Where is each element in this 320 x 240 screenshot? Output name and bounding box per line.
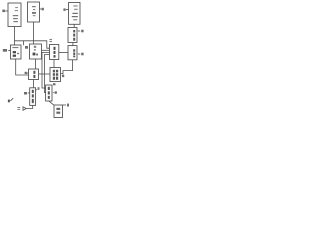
leader C label <box>66 9 68 11</box>
wire A to F vertical <box>14 27 16 46</box>
text U32 interior <box>53 70 58 80</box>
speaker triangle <box>23 107 26 111</box>
wire B to G vertical <box>33 22 35 44</box>
leader 26 <box>78 53 80 55</box>
wire C to D vertical <box>73 24 75 27</box>
wire L to M diagonal <box>49 101 54 105</box>
text U12 interior <box>12 47 18 57</box>
text U34 interior vertical <box>33 71 35 78</box>
ref label right of U6 <box>67 104 69 107</box>
wire E down to J <box>61 60 73 74</box>
wire H left down to L lower <box>45 55 50 93</box>
block U16 (top-middle box) <box>28 2 40 22</box>
ref label 14 <box>25 46 28 49</box>
block U15 (bottom middle box) <box>46 85 52 101</box>
wire H to E horizontal <box>59 52 68 54</box>
text U10 interior <box>13 7 18 22</box>
block U32 (lower-mid right box) <box>50 68 61 82</box>
microphone marks left of speaker <box>17 108 20 110</box>
leader K label <box>28 92 30 94</box>
ref label left of U18 <box>63 8 65 11</box>
wire F down right to I <box>16 59 29 75</box>
block U46 (mid box right of U14) <box>50 45 59 60</box>
block U10 (top-left box) <box>8 3 21 27</box>
ref label 24 <box>81 30 83 33</box>
ref label 2 figure number <box>8 100 10 103</box>
text U18 interior <box>72 5 78 20</box>
block U34 (lower-mid left box) <box>29 69 39 80</box>
ref label above U46 <box>50 39 52 42</box>
text U6 interior <box>56 108 60 114</box>
wire G to I vertical <box>35 59 37 69</box>
ref label 10 <box>2 10 5 13</box>
wire D to E vertical <box>72 42 74 45</box>
block U24 (right col upper box) <box>68 28 77 43</box>
block U36 (bottom tall narrow box) <box>30 88 36 106</box>
leader I label <box>27 72 28 74</box>
text U15 interior vertical <box>48 87 50 99</box>
leader 24 <box>78 30 80 32</box>
leader 2 arrow <box>10 98 13 101</box>
leader M label <box>63 104 66 106</box>
leader 16 <box>40 8 41 10</box>
ref label below U32 <box>53 83 56 85</box>
wire G to H <box>42 49 50 51</box>
block U18 (top-right box) <box>69 3 81 25</box>
text U46 interior vertical <box>54 47 56 58</box>
ref label right of U32 <box>62 75 64 78</box>
block U14 (mid-middle box) <box>30 44 42 59</box>
block U12 (mid-left box) <box>11 45 22 59</box>
text U36 interior vertical <box>32 90 34 103</box>
ref label left of U34 <box>25 72 27 74</box>
ref label 12 <box>3 49 7 52</box>
wire H left down to L upper <box>42 52 50 88</box>
wire H to J vertical <box>53 60 55 68</box>
ref label right of U36 top <box>38 87 40 90</box>
leader K right label <box>36 89 37 91</box>
wire K down to speaker <box>26 105 33 108</box>
wire I to J horizontal <box>39 73 51 75</box>
text U24 interior vertical <box>73 30 75 41</box>
ref label 15 right of U15 <box>53 91 57 94</box>
ref label 16 <box>41 8 44 11</box>
leader 10 <box>6 10 8 12</box>
leader 12 <box>8 50 10 52</box>
block U6 (bottom right box) <box>54 105 63 118</box>
ref label 26 <box>81 53 83 56</box>
text U26 interior <box>73 49 75 57</box>
block U26 (right col lower box) <box>68 46 77 60</box>
wire bus horizontal to H <box>15 41 50 48</box>
text U14 interior <box>33 46 38 56</box>
wire I to K vertical <box>33 80 35 88</box>
ref label left of U36 <box>24 92 27 95</box>
leader 14 stub <box>23 41 25 46</box>
text U16 interior <box>32 6 36 16</box>
